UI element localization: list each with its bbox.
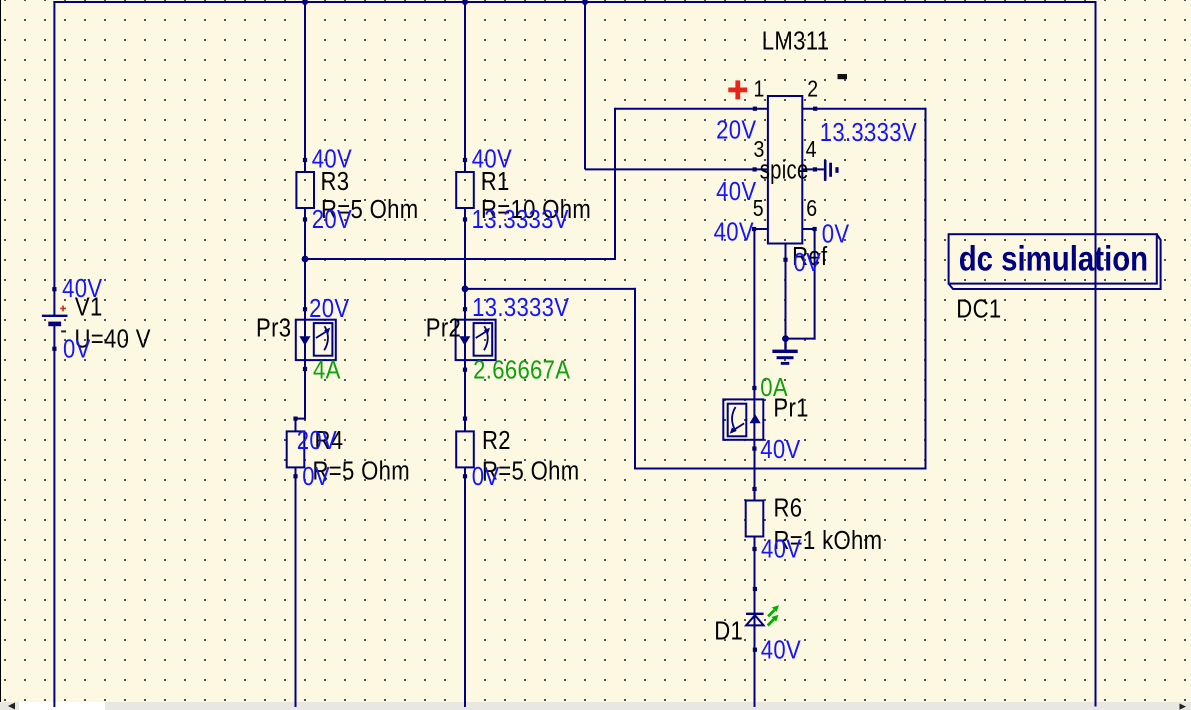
wire Pr1 to R6 bbox=[754, 449, 756, 501]
svg-text:40V: 40V bbox=[760, 435, 800, 464]
wire R4 top stub bbox=[295, 419, 297, 432]
V1 plus sign horizontal stroke bbox=[60, 308, 66, 310]
svg-text:R6: R6 bbox=[774, 494, 803, 523]
scrollbar left arrow bbox=[0, 702, 20, 710]
svg-text:13.3333V: 13.3333V bbox=[820, 118, 917, 147]
pin dot LM311 pin 6 bbox=[813, 227, 817, 231]
pin dot LM311 pin 5 bbox=[752, 227, 756, 231]
LM311 plus input mark vertical stroke bbox=[735, 80, 740, 99]
pin dot Pr2 bottom bbox=[463, 368, 467, 372]
wire pin2 horizontal bbox=[802, 108, 926, 110]
probe Pr3 current direction arrow bbox=[299, 336, 310, 345]
pin dot V1 plus terminal bbox=[52, 287, 56, 291]
svg-text:0V: 0V bbox=[794, 248, 822, 277]
junction node at ground net bbox=[782, 335, 789, 342]
svg-text:0V: 0V bbox=[63, 335, 91, 364]
svg-text:13.3333V: 13.3333V bbox=[472, 205, 569, 234]
pin dot Pr1 top bbox=[752, 386, 756, 390]
battery V1 long plate bbox=[42, 315, 68, 317]
wire horizontal y259 bbox=[305, 258, 616, 260]
wire R3 to Pr3 to jog bbox=[304, 208, 306, 419]
ground at pin 4 bar 1 bbox=[824, 160, 827, 181]
svg-text:spice: spice bbox=[760, 155, 809, 184]
svg-text:6: 6 bbox=[806, 196, 817, 222]
probe Pr3 needle bbox=[316, 330, 328, 338]
junction node at R1 bottom / feedback wire bbox=[462, 286, 469, 293]
junction node top rail / R1 column bbox=[462, 0, 468, 5]
pin dot V1 minus terminal bbox=[52, 347, 56, 351]
wire R1 to Pr2 to R2 bbox=[464, 208, 466, 431]
svg-text:40V: 40V bbox=[312, 145, 352, 174]
svg-text:0V: 0V bbox=[302, 462, 330, 491]
probe Pr1 needle bbox=[732, 423, 744, 431]
ammeter probe Pr3 outer box bbox=[296, 320, 336, 360]
wire pin5 stub bbox=[754, 228, 768, 230]
pin dot LM311 pin 2 bbox=[813, 107, 817, 111]
svg-text:1: 1 bbox=[754, 76, 765, 102]
wire ref pin down bbox=[785, 244, 787, 339]
probe Pr3 meter dial box bbox=[314, 323, 333, 356]
wire pin1 horizontal bbox=[615, 108, 768, 110]
probe Pr1 meter dial box bbox=[728, 404, 747, 437]
svg-text:40V: 40V bbox=[472, 145, 512, 174]
V1 minus sign bbox=[61, 330, 66, 332]
wire right column x1095 bbox=[1095, 1, 1097, 707]
resistor R1 body bbox=[456, 172, 474, 208]
probe Pr2 needle arrowhead bbox=[484, 328, 490, 334]
ground bar 3 bbox=[781, 362, 790, 365]
svg-text:0A: 0A bbox=[760, 374, 788, 403]
wire pin4 stub bbox=[802, 168, 824, 170]
wire pin6 stub bbox=[802, 228, 815, 230]
pin dot LM311 pin 4 bbox=[813, 167, 817, 171]
wire top rail bbox=[53, 1, 1096, 3]
bottom scrollbar thumb bbox=[19, 702, 105, 710]
svg-text:20V: 20V bbox=[309, 295, 349, 324]
svg-text:Pr2: Pr2 bbox=[426, 314, 461, 343]
left window border bbox=[0, 0, 1, 702]
pin dot R1 top bbox=[463, 158, 467, 162]
wire R1 column top bbox=[464, 1, 466, 172]
diode D1 cathode bar bbox=[746, 613, 764, 615]
wire R3 column top bbox=[304, 1, 306, 172]
junction node top rail / pin3 column bbox=[582, 0, 588, 5]
pin dot R3 top bbox=[303, 158, 307, 162]
pin dot LM311 ref pin bbox=[783, 258, 787, 262]
svg-text:Pr3: Pr3 bbox=[256, 314, 291, 343]
resistor R2 body bbox=[456, 431, 474, 467]
pin dot Pr3 bottom bbox=[303, 367, 307, 371]
wire pin5 down to Pr1 bbox=[753, 229, 755, 388]
svg-text:20V: 20V bbox=[716, 116, 756, 145]
LED D1 emission arrow 2 bbox=[768, 619, 774, 625]
svg-text:4A: 4A bbox=[313, 356, 341, 385]
ground bar 2 bbox=[777, 356, 794, 359]
svg-text:dc simulation: dc simulation bbox=[959, 239, 1148, 278]
LM311 plus input mark horizontal stroke bbox=[728, 88, 747, 93]
junction node at R3 bottom / output wire bbox=[302, 256, 309, 263]
svg-text:40V: 40V bbox=[714, 218, 754, 247]
wire vertical x635 bbox=[634, 288, 636, 470]
bottom scrollbar track bbox=[0, 702, 1191, 710]
ammeter probe Pr2 outer box bbox=[456, 320, 496, 360]
probe Pr2 needle bbox=[476, 330, 488, 338]
probe Pr2 dial arc bbox=[484, 326, 488, 350]
pin dot R4 top bbox=[293, 417, 297, 421]
svg-text:LM311: LM311 bbox=[762, 27, 830, 56]
op-amp U1 LM311 box bbox=[768, 96, 802, 244]
pin dot LM311 pin 3 bbox=[753, 167, 757, 171]
pin dot D1 bottom bbox=[753, 648, 757, 652]
svg-text:0V: 0V bbox=[822, 220, 850, 249]
dc simulation block DC1 box bbox=[949, 234, 1157, 283]
wire R6 to D1 to bottom bbox=[754, 537, 756, 708]
svg-text:R2: R2 bbox=[482, 426, 511, 455]
pin dot R6 top bbox=[752, 487, 756, 491]
probe Pr1 current direction arrow bbox=[750, 414, 761, 423]
ground at pin 4 bar 2 bbox=[829, 163, 832, 177]
pin dot D1 top bbox=[753, 587, 757, 591]
LM311 minus input mark bbox=[838, 74, 848, 79]
ground stem below ref net bbox=[784, 339, 786, 350]
probe Pr2 meter dial box bbox=[474, 323, 493, 356]
pin dot Pr3 top bbox=[303, 307, 307, 311]
probe Pr3 dial arc bbox=[324, 326, 328, 350]
svg-text:DC1: DC1 bbox=[956, 295, 1001, 324]
V1 plus sign vertical stroke bbox=[62, 306, 64, 312]
wire vertical x925 bbox=[925, 108, 927, 470]
svg-text:20V: 20V bbox=[297, 426, 337, 455]
pin dot R2 top bbox=[463, 417, 467, 421]
svg-text:13.3333V: 13.3333V bbox=[472, 294, 569, 323]
resistor R6 body bbox=[746, 501, 764, 537]
wire left column lower bbox=[53, 326, 55, 707]
LED D1 emission arrow 1 bbox=[768, 610, 774, 616]
probe Pr2 current direction arrow bbox=[459, 336, 470, 345]
wire R2 column bottom bbox=[464, 467, 466, 707]
wire left column upper bbox=[53, 1, 55, 316]
pin dot LM311 pin 1 bbox=[753, 107, 757, 111]
pin dot R6 bottom bbox=[752, 547, 756, 551]
pin dot Pr1 bottom bbox=[752, 447, 756, 451]
svg-text:2.66667A: 2.66667A bbox=[473, 356, 571, 385]
battery V1 short plate bbox=[48, 322, 61, 327]
wire vertical x585 to pin3 bbox=[584, 1, 586, 169]
svg-text:20V: 20V bbox=[312, 205, 352, 234]
ground bar 1 bbox=[772, 350, 797, 353]
wire vertical x615 bbox=[614, 108, 616, 260]
wire Pr1 through bbox=[753, 388, 755, 449]
wire horizontal y338 ref to pin6 bbox=[786, 338, 816, 340]
pin dot Pr2 top bbox=[463, 307, 467, 311]
pin dot R2 bottom bbox=[463, 474, 467, 478]
wire R4 column bottom bbox=[295, 467, 297, 707]
resistor R3 body bbox=[296, 172, 314, 208]
pin dot R3 bottom bbox=[303, 217, 307, 221]
wire pin3 horizontal bbox=[585, 168, 768, 170]
svg-text:40V: 40V bbox=[761, 636, 801, 665]
pin dot R1 bottom bbox=[463, 217, 467, 221]
resistor R4 body bbox=[287, 431, 305, 467]
dc simulation block DC1 shadow bbox=[949, 235, 1161, 290]
svg-text:40V: 40V bbox=[716, 177, 756, 206]
svg-text:2: 2 bbox=[807, 76, 818, 102]
probe Pr1 dial arc bbox=[732, 407, 736, 431]
wire horizontal y289 bbox=[465, 288, 636, 290]
ammeter probe Pr1 outer box bbox=[723, 399, 763, 439]
wire pin6 down bbox=[814, 229, 816, 340]
svg-text:40V: 40V bbox=[62, 275, 102, 304]
ground at pin 4 bar 3 bbox=[835, 167, 838, 173]
diode D1 triangle bbox=[746, 615, 764, 625]
svg-text:D1: D1 bbox=[714, 617, 743, 646]
wire jog horizontal bbox=[295, 418, 307, 420]
pin dot R4 bottom bbox=[293, 474, 297, 478]
probe Pr3 needle arrowhead bbox=[324, 328, 330, 334]
svg-text:40V: 40V bbox=[761, 535, 801, 564]
junction node top rail / R3 column bbox=[302, 0, 308, 5]
probe Pr1 needle arrowhead bbox=[730, 427, 736, 433]
wire horizontal y468 bbox=[634, 468, 927, 470]
scrollbar right arrow bbox=[1171, 702, 1191, 710]
svg-text:0V: 0V bbox=[472, 462, 500, 491]
